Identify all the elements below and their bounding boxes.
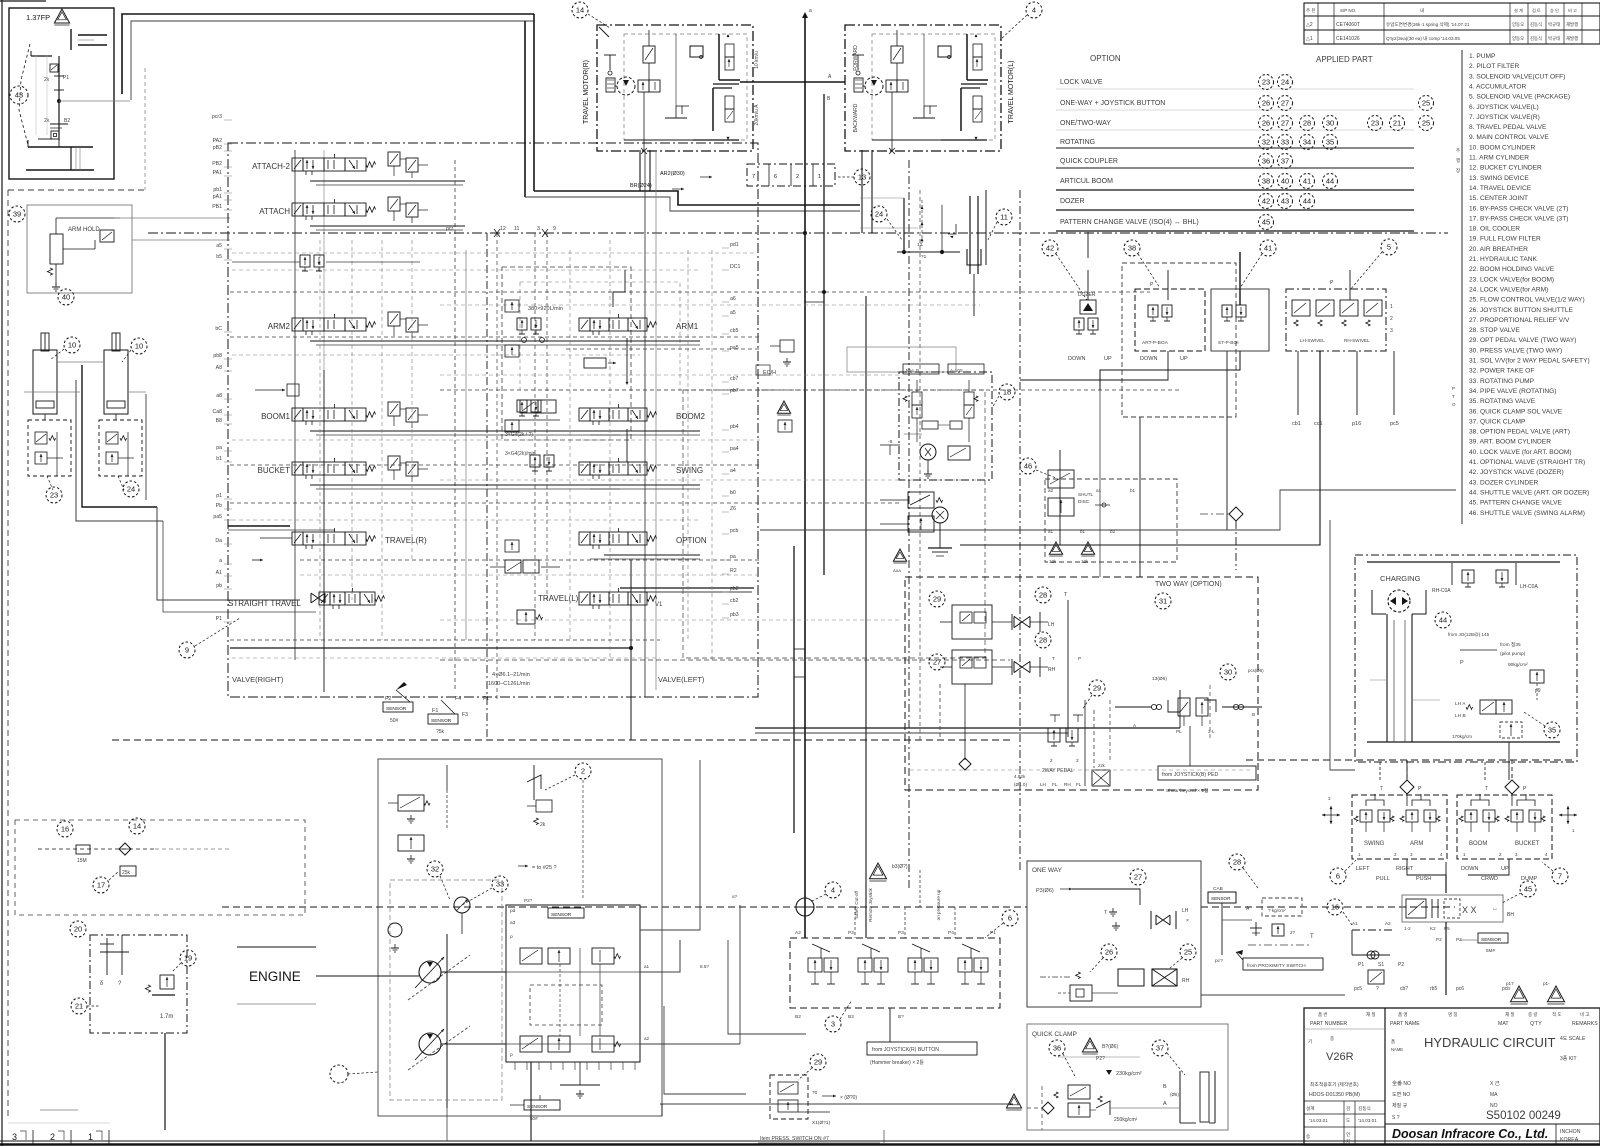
circled 4 accumulator — [825, 882, 841, 898]
circled 39 — [9, 206, 25, 222]
wire one-way outputs — [1201, 994, 1233, 996]
svg-text:내: 내 — [1420, 7, 1424, 14]
svg-text:43: 43 — [1281, 197, 1289, 206]
doosan row divider — [1385, 1123, 1600, 1125]
svg-text:pa: pa — [730, 554, 736, 560]
svg-text:28. STOP VALVE: 28. STOP VALVE — [1469, 327, 1520, 334]
pump inner dashed box — [390, 880, 502, 1100]
svg-text:PART NUMBER: PART NUMBER — [1310, 1021, 1347, 1027]
svg-text:pd1: pd1 — [730, 242, 739, 248]
wire main bus to valve — [534, 191, 860, 205]
svg-text:P3: P3 — [898, 930, 904, 936]
svg-text:14: 14 — [576, 6, 584, 15]
cylinder small bottom of 1.37FP — [28, 146, 93, 148]
wire two-way verticals down — [939, 684, 941, 740]
svg-text:28: 28 — [1233, 858, 1241, 867]
wire L to straight travel — [157, 507, 300, 600]
circled 19 — [180, 950, 196, 966]
svg-text:11: 11 — [1000, 213, 1008, 222]
svg-text:45: 45 — [1262, 218, 1270, 227]
svg-text:DISC: DISC — [1078, 499, 1090, 504]
svg-text:B: B — [1252, 712, 1255, 717]
svg-text:? kg/cm²: ? kg/cm² — [1268, 908, 1286, 913]
svg-text:pcs(Ø6): pcs(Ø6) — [1248, 668, 1264, 673]
svg-text:P1: P1 — [216, 616, 222, 622]
relief pair — [388, 402, 400, 416]
pilot dashed box center — [502, 267, 631, 440]
svg-text:3: 3 — [537, 226, 540, 232]
outer dashed box art boom — [1122, 263, 1236, 417]
svg-text:a3: a3 — [510, 920, 516, 926]
svg-text:(Ø6): (Ø6) — [1170, 1092, 1179, 1097]
shuttle disc dashed box — [1045, 479, 1177, 562]
svg-text:a4: a4 — [730, 468, 736, 474]
opt pedal upper — [952, 605, 992, 639]
svg-text:중 량: 중 량 — [1528, 1011, 1538, 1017]
svg-text:7: 7 — [752, 174, 755, 180]
joystick valve cluster SWING/ARM — [1352, 795, 1447, 859]
svg-text:'14.03.01: '14.03.01 — [1358, 1118, 1377, 1123]
svg-text:39. ART. BOOM CYLINDER: 39. ART. BOOM CYLINDER — [1469, 439, 1551, 446]
svg-text:41: 41 — [1264, 244, 1272, 253]
svg-text:6: 6 — [774, 174, 777, 180]
one-way plain box — [1118, 969, 1144, 986]
svg-text:재발행: 재발행 — [1566, 35, 1578, 42]
wire boundary dash top-left horizontal — [8, 189, 148, 191]
wire section output — [604, 340, 700, 342]
svg-text:27: 27 — [1281, 99, 1289, 108]
svg-text:12: 12 — [500, 226, 506, 232]
svg-text:AAA: AAA — [893, 568, 901, 573]
svg-text:F1: F1 — [432, 708, 438, 714]
svg-text:4: 4 — [1032, 6, 1036, 15]
svg-text:DOWN: DOWN — [1140, 356, 1157, 362]
svg-text:24: 24 — [1281, 78, 1289, 87]
svg-text:SENSOR: SENSOR — [527, 1104, 548, 1110]
bypass check right — [1352, 929, 1392, 931]
stop valve upper 28 — [1035, 587, 1051, 603]
svg-text:2?: 2? — [1290, 930, 1296, 935]
svg-text:A1: A1 — [1352, 921, 1358, 926]
pedal valve two-way — [1054, 715, 1056, 722]
svg-text:from JO(12B@) 145: from JO(12B@) 145 — [1448, 632, 1490, 637]
swing device lines — [903, 198, 905, 252]
wire tank outlet — [164, 1033, 166, 1130]
svg-text:6: 6 — [1008, 914, 1012, 923]
svg-text:명 칭: 명 칭 — [1448, 1011, 1458, 1017]
svg-text:pcb: pcb — [730, 528, 738, 534]
svg-text:V26R: V26R — [1326, 1051, 1354, 1063]
svg-text:5M#: 5M# — [1486, 948, 1495, 953]
svg-text:VALVE(RIGHT): VALVE(RIGHT) — [232, 675, 284, 684]
svg-text:pc5: pc5 — [1390, 421, 1399, 427]
sheet border bottom — [0, 1140, 1600, 1142]
joystick valve cluster BOOM/BUCKET — [1457, 795, 1552, 859]
svg-text:5: 5 — [1387, 243, 1391, 252]
svg-text:21: 21 — [1393, 119, 1401, 128]
hydraulic tank box — [90, 935, 187, 1033]
svg-text:24: 24 — [127, 485, 135, 494]
svg-text:pb4: pb4 — [730, 424, 739, 430]
boom cylinder 2 — [112, 333, 120, 351]
svg-text:3: 3 — [1390, 328, 1393, 334]
svg-text:CRWD: CRWD — [1481, 876, 1498, 882]
svg-text:Da: Da — [215, 538, 222, 544]
MCV internal verticals — [294, 150, 296, 660]
svg-text:UP: UP — [1104, 356, 1112, 362]
shuttle diamond mid — [1229, 507, 1243, 521]
circled 37 — [1152, 1040, 1168, 1056]
pilot valve pair BUCKET — [1511, 810, 1523, 822]
svg-text:'14.03.01: '14.03.01 — [1309, 1118, 1328, 1123]
pump top wires — [446, 765, 448, 790]
bypass check filter — [76, 845, 90, 854]
svg-text:33: 33 — [1281, 138, 1289, 147]
circled 16 — [57, 821, 73, 837]
extra verticals from option boxes — [1139, 417, 1141, 577]
svg-text:X 己: X 己 — [1490, 1081, 1500, 1087]
svg-text:2: 2 — [50, 1132, 55, 1142]
arm holding valve box — [27, 205, 132, 293]
svg-text:SHUTL: SHUTL — [1078, 492, 1094, 497]
svg-text:30: 30 — [1326, 119, 1334, 128]
wire section output — [604, 430, 700, 432]
svg-text:8. TRAVEL PEDAL VALVE: 8. TRAVEL PEDAL VALVE — [1469, 124, 1547, 131]
pilot dashed horizontals — [230, 291, 1150, 293]
svg-text:ONE/TWO-WAY: ONE/TWO-WAY — [1060, 120, 1111, 127]
svg-text:HYDRAULIC CIRCUIT: HYDRAULIC CIRCUIT — [1424, 1035, 1556, 1050]
travel motor (L) brake pilot — [857, 55, 859, 70]
svg-text:b0: b0 — [730, 490, 736, 496]
svg-text:9. MAIN CONTROL VALVE: 9. MAIN CONTROL VALVE — [1469, 134, 1549, 141]
svg-text:= to #25 ?: = to #25 ? — [532, 865, 557, 871]
svg-text:4도 SCALE: 4도 SCALE — [1560, 1036, 1586, 1042]
svg-text:S50102 00249: S50102 00249 — [1486, 1110, 1561, 1122]
svg-text:a1: a1 — [1048, 529, 1054, 534]
wire one-way dashdot — [1040, 976, 1070, 978]
svg-text:-9: -9 — [888, 439, 893, 445]
svg-text:32: 32 — [431, 865, 439, 874]
svg-text:cb7: cb7 — [730, 376, 738, 382]
svg-text:PULL: PULL — [1376, 876, 1390, 882]
svg-text:LEFT: LEFT — [1356, 866, 1370, 872]
charging motor — [1388, 590, 1410, 612]
qc relief — [1098, 1096, 1102, 1102]
svg-text:인: 인 — [1346, 1131, 1350, 1137]
svg-text:김동식: 김동식 — [1530, 35, 1542, 42]
svg-text:RH: RH — [1048, 667, 1056, 673]
svg-text:13. SWING DEVICE: 13. SWING DEVICE — [1469, 175, 1529, 182]
svg-text:18. OIL COOLER: 18. OIL COOLER — [1469, 226, 1520, 233]
svg-text:41: 41 — [1303, 177, 1311, 186]
svg-text:REMARKS: REMARKS — [1572, 1021, 1598, 1027]
svg-text:33: 33 — [496, 880, 504, 889]
travel motor (R) motor circle — [617, 77, 635, 95]
wire dash-dot proximity — [1248, 944, 1312, 946]
svg-text:B: B — [1163, 1084, 1167, 1090]
svg-text:15. CENTER JOINT: 15. CENTER JOINT — [1469, 195, 1528, 202]
wire main P lines right — [755, 727, 1180, 729]
pedal valve section 4 — [962, 944, 980, 952]
svg-text:18: 18 — [1003, 388, 1011, 397]
svg-text:TRAVEL MOTOR(R): TRAVEL MOTOR(R) — [583, 60, 590, 124]
svg-text:기: 기 — [1308, 1038, 1312, 1045]
svg-text:ATTACH: ATTACH — [259, 207, 290, 216]
svg-text:16. BY-PASS CHECK VALVE (2T): 16. BY-PASS CHECK VALVE (2T) — [1469, 205, 1568, 212]
svg-text:CE74060T: CE74060T — [1336, 22, 1360, 28]
svg-text:PL: PL — [1176, 729, 1182, 734]
svg-text:pa5: pa5 — [730, 345, 739, 351]
title block outline — [1304, 1008, 1600, 1145]
travel motor (L) motor circle — [865, 77, 883, 95]
svg-text:SENSOR: SENSOR — [386, 706, 407, 712]
svg-text:a2: a2 — [1048, 488, 1054, 493]
svg-text:3×G4(2k / ?): 3×G4(2k / ?) — [505, 432, 533, 438]
svg-text:21. HYDRAULIC TANK: 21. HYDRAULIC TANK — [1469, 256, 1538, 263]
svg-text:Ca8: Ca8 — [212, 409, 222, 415]
svg-text:유압도면변경(36k·1 spring 삭제) '14.07: 유압도면변경(36k·1 spring 삭제) '14.07.21 — [1386, 21, 1470, 28]
svg-text:P: P — [1460, 660, 1464, 666]
wire section output — [310, 430, 622, 432]
svg-text:1.37FP: 1.37FP — [26, 13, 50, 22]
circled 32 — [427, 861, 443, 877]
from joystick(B) box — [1158, 766, 1256, 780]
svg-text:29: 29 — [933, 595, 941, 604]
svg-text:26: 26 — [1262, 99, 1270, 108]
svg-text:37: 37 — [1156, 1044, 1164, 1053]
swing pilot dashes — [921, 200, 923, 246]
svg-text:T: T — [1104, 910, 1107, 916]
engine label — [237, 946, 316, 948]
pilot filter assembly near 2 — [446, 790, 448, 830]
svg-text:4.92k: 4.92k — [1014, 774, 1026, 779]
warning triangle cluster — [893, 549, 906, 561]
MCV dash-dot vertical x=487 — [486, 233, 488, 740]
svg-text:3×G4(2k)/min: 3×G4(2k)/min — [505, 451, 536, 457]
svg-text:FL: FL — [1052, 782, 1058, 787]
svg-text:pa4: pa4 — [730, 446, 739, 452]
svg-text:26. JOYSTICK BUTTON SHUTTLE: 26. JOYSTICK BUTTON SHUTTLE — [1469, 307, 1574, 314]
svg-text:b5: b5 — [216, 254, 222, 260]
pilot dashed horizontals extra — [232, 252, 756, 254]
travel motor (R) shuttle box — [690, 46, 703, 57]
wire section output — [604, 554, 700, 556]
svg-text:(pilot pump): (pilot pump) — [1500, 651, 1526, 657]
svg-text:20: 20 — [74, 925, 82, 934]
wire main bus vertical drop — [524, 21, 526, 197]
svg-text:4: 4 — [831, 886, 835, 895]
svg-text:ATTACH-2: ATTACH-2 — [252, 162, 290, 171]
svg-text:27. PROPORTIONAL RELIEF V/V: 27. PROPORTIONAL RELIEF V/V — [1469, 317, 1570, 324]
svg-text:설 계: 설 계 — [1514, 7, 1523, 14]
wire L-bus near cylinders — [82, 365, 157, 507]
svg-text:F3: F3 — [462, 712, 468, 718]
svg-text:?: ? — [1376, 986, 1379, 992]
revision table — [1304, 3, 1600, 44]
svg-text:cc1: cc1 — [1314, 421, 1323, 427]
svg-text:장: 장 — [1456, 167, 1460, 173]
svg-text:LH-SWIVEL: LH-SWIVEL — [1300, 338, 1325, 343]
charging lower valve — [1480, 700, 1496, 714]
svg-text:X1(Ø?1): X1(Ø?1) — [812, 1120, 831, 1126]
svg-text:from JOYSTICK(B) PED: from JOYSTICK(B) PED — [1162, 772, 1218, 778]
sheet border left — [1, 150, 3, 1146]
svg-text:ARM HOLD: ARM HOLD — [68, 227, 100, 233]
svg-text:PB1: PB1 — [212, 204, 222, 210]
circled 9 — [179, 642, 195, 658]
svg-text:pd: pd — [510, 908, 516, 914]
svg-text:LH-C0A: LH-C0A — [1520, 584, 1538, 590]
svg-text:cb1: cb1 — [1292, 421, 1301, 427]
warning triangles bottom right — [1510, 986, 1527, 1002]
svg-text:ENGINE: ENGINE — [249, 969, 301, 984]
svg-text:15M: 15M — [77, 858, 87, 864]
svg-text:2: 2 — [1050, 758, 1053, 763]
svg-text:SENSOR: SENSOR — [431, 718, 452, 724]
one way box — [1027, 861, 1201, 1007]
svg-text:1: 1 — [1390, 304, 1393, 310]
valve chain 1.37FP — [31, 55, 52, 57]
circled 29 press — [810, 1054, 826, 1070]
svg-text:3: 3 — [12, 1132, 17, 1142]
wire dashed pilot line left — [38, 848, 155, 850]
svg-text:1-2: 1-2 — [1404, 926, 1411, 931]
one-way wire top — [1072, 889, 1140, 905]
svg-text:B2: B2 — [795, 1014, 801, 1020]
pilot valve pair BOOM — [1465, 810, 1477, 822]
svg-text:44: 44 — [1303, 197, 1311, 206]
svg-text:?5k: ?5k — [436, 729, 445, 735]
circled 6 cluster — [1330, 868, 1346, 884]
svg-text:(Hammer breaker) × 2틀: (Hammer breaker) × 2틀 — [870, 1060, 924, 1066]
svg-text:23: 23 — [1371, 119, 1379, 128]
press switch valve — [770, 1075, 808, 1119]
svg-text:pa: pa — [216, 445, 222, 451]
travel motor (R) counterbalance — [643, 46, 655, 63]
two way option box — [905, 577, 1258, 790]
relief pair — [388, 152, 400, 166]
svg-text:A-10S: A-10S — [950, 368, 963, 373]
svg-text:비 고: 비 고 — [1580, 1011, 1590, 1018]
tank relief valve — [145, 985, 150, 992]
svg-text:PA1: PA1 — [213, 170, 223, 176]
svg-text:STRAIGHT TRAVEL: STRAIGHT TRAVEL — [228, 599, 301, 608]
svg-text:44. SHUTTLE VALVE (ART. OR DOZ: 44. SHUTTLE VALVE (ART. OR DOZER) — [1469, 489, 1589, 496]
circled 5 top — [1381, 239, 1397, 255]
svg-text:37: 37 — [1281, 157, 1289, 166]
solenoid block labels — [903, 364, 939, 374]
pump bottom port stubs — [514, 1062, 516, 1070]
pump inner rails — [506, 971, 640, 973]
svg-text:28: 28 — [1039, 636, 1047, 645]
svg-text:p1-: p1- — [1543, 981, 1550, 986]
svg-text:33. ROTATING PUMP: 33. ROTATING PUMP — [1469, 378, 1535, 385]
wire lower boundary dashed y=907 left — [222, 906, 1027, 908]
svg-text:RH: RH — [1064, 782, 1071, 787]
svg-text:ART-P-BOA: ART-P-BOA — [1142, 340, 1169, 346]
svg-text:ARM: ARM — [1410, 841, 1423, 847]
svg-text:4. ACCUMULATOR: 4. ACCUMULATOR — [1469, 83, 1527, 90]
wire section output — [310, 180, 465, 182]
svg-text:LH A: LH A — [1455, 701, 1466, 707]
wire center joint dash-dot horizontal y=233 — [148, 232, 1448, 234]
svg-text:DC1: DC1 — [730, 264, 740, 270]
circled 21 — [71, 998, 87, 1014]
accumulator circle — [796, 898, 814, 916]
svg-text:RH-SWIVEL: RH-SWIVEL — [1344, 338, 1370, 343]
svg-text:F4: F4 — [455, 696, 461, 702]
svg-text:TRAVEL(L): TRAVEL(L) — [538, 594, 579, 603]
svg-text:a: a — [219, 558, 222, 564]
travel motor (R) bottom rail — [624, 139, 693, 141]
svg-text:35. ROTATING VALVE: 35. ROTATING VALVE — [1469, 398, 1536, 405]
charging drop lines — [1386, 614, 1388, 742]
svg-text:23: 23 — [50, 491, 58, 500]
svg-text:a1: a1 — [644, 964, 650, 969]
pump sensor bottom — [524, 1100, 560, 1110]
svg-text:44: 44 — [1439, 616, 1447, 625]
svg-text:LH B: LH B — [1455, 713, 1466, 719]
travel motor (L) center drain — [923, 34, 925, 106]
swing housing light — [860, 197, 904, 199]
svg-text:QUICK COUPLER: QUICK COUPLER — [1060, 158, 1118, 165]
warning triangles pair — [1049, 542, 1062, 554]
svg-text:36: 36 — [1053, 1044, 1061, 1053]
svg-text:12k: 12k — [1049, 559, 1057, 564]
wire section output — [310, 340, 622, 342]
qc cylinder — [1179, 1071, 1181, 1123]
svg-text:22. BOOM HOLDING VALVE: 22. BOOM HOLDING VALVE — [1469, 266, 1555, 273]
svg-text:38. OPTION PEDAL VALVE (ART): 38. OPTION PEDAL VALVE (ART) — [1469, 429, 1570, 436]
circled 25 — [1180, 944, 1196, 960]
svg-text:11: 11 — [514, 226, 519, 232]
svg-text:10: 10 — [135, 342, 143, 351]
circled 10 cylinder1 — [64, 337, 80, 353]
svg-text:11. ARM CYLINDER: 11. ARM CYLINDER — [1469, 155, 1529, 162]
svg-text:46: 46 — [1024, 462, 1032, 471]
svg-text:a8: a8 — [216, 393, 222, 399]
circled 29 two-way — [929, 591, 945, 607]
svg-text:척 도: 척 도 — [1552, 1011, 1562, 1018]
svg-text:24: 24 — [875, 210, 883, 219]
svg-text:LH: LH — [1048, 622, 1055, 628]
shuttle top — [1400, 780, 1414, 794]
svg-text:10. BOOM CYLINDER: 10. BOOM CYLINDER — [1469, 144, 1536, 151]
svg-text:39: 39 — [13, 210, 21, 219]
svg-text:230kg/cm²: 230kg/cm² — [1116, 1071, 1142, 1077]
svg-text:pb3: pb3 — [730, 612, 739, 618]
wire bank pilots — [804, 920, 806, 938]
two-way center tee — [1067, 600, 1069, 737]
travel motor R output wire — [740, 81, 845, 83]
svg-text:45. PATTERN CHANGE VALVE: 45. PATTERN CHANGE VALVE — [1469, 500, 1563, 507]
svg-text:rb5: rb5 — [1430, 986, 1437, 992]
cutoff solenoid lower — [398, 835, 424, 851]
svg-text:on pressure up: on pressure up — [936, 889, 941, 920]
svg-text:× (Ø?0): × (Ø?0) — [840, 1095, 857, 1101]
circled 17 — [93, 877, 109, 893]
svg-text:10: 10 — [68, 341, 76, 350]
swing motor bracket — [967, 249, 981, 265]
svg-text:b1: b1 — [216, 456, 222, 462]
svg-text:7. JOYSTICK VALVE(R): 7. JOYSTICK VALVE(R) — [1469, 114, 1540, 121]
svg-text:B8: B8 — [216, 418, 222, 424]
pump outputs right — [640, 940, 680, 972]
svg-text:34: 34 — [1303, 138, 1311, 147]
svg-text:승 인: 승 인 — [1550, 7, 1559, 13]
one-way T symbols — [1112, 908, 1114, 912]
opt pedal lower — [929, 654, 945, 670]
